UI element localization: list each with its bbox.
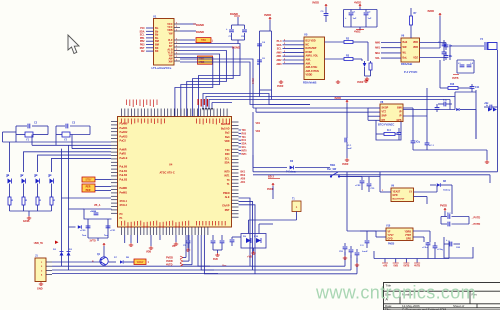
svg-text:VDD: VDD	[413, 41, 418, 44]
svg-text:Pwr_SW: Pwr_SW	[327, 169, 337, 171]
svg-text:V5: V5	[304, 33, 308, 37]
svg-text:SDA: SDA	[375, 52, 380, 55]
svg-text:→PVTD: →PVTD	[471, 217, 480, 220]
svg-text:NC: NC	[306, 43, 310, 46]
svg-text:YVVY: YVVY	[388, 235, 395, 237]
svg-text:VTNT: VTNT	[405, 235, 412, 237]
svg-text:YW: YW	[168, 32, 173, 35]
svg-text:+C-1: +C-1	[429, 145, 435, 147]
svg-text:0VB: 0VB	[393, 266, 398, 268]
svg-text:PuALE: PuALE	[120, 157, 128, 160]
svg-text:EA/VP: EA/VP	[222, 205, 230, 208]
svg-text:PwMI0: PwMI0	[120, 187, 128, 190]
svg-text:BuL: BuL	[403, 57, 408, 60]
svg-text:Sheet of: Sheet of	[453, 304, 464, 308]
svg-text:0402: 0402	[251, 78, 255, 84]
svg-text:4VDD: 4VDD	[166, 260, 173, 263]
svg-text:P1.0: P1.0	[277, 40, 283, 43]
svg-text:AWLAYTEN: AWLAYTEN	[306, 70, 319, 73]
svg-text:Tant: Tant	[104, 234, 109, 237]
svg-text:+C30: +C30	[80, 230, 86, 232]
svg-text:XTAL2: XTAL2	[120, 204, 128, 207]
svg-text:ATSC ATX-C: ATSC ATX-C	[160, 171, 175, 175]
svg-text:INT0: INT0	[224, 170, 230, 173]
svg-text:R-C: R-C	[447, 213, 451, 215]
svg-text:USB_5V: USB_5V	[34, 242, 44, 245]
svg-text:PER: PER	[86, 187, 91, 189]
svg-text:BK2: BK2	[241, 175, 246, 177]
svg-text:DVDZ: DVDZ	[306, 51, 313, 54]
svg-text:VD2: VD2	[256, 131, 261, 133]
svg-text:www.cntronics.com: www.cntronics.com	[315, 283, 476, 303]
svg-text:1uF: 1uF	[368, 18, 373, 20]
svg-text:RX0: RX0	[225, 153, 230, 156]
svg-text:4VDD: 4VDD	[354, 1, 361, 5]
svg-text:4VTB: 4VTB	[452, 77, 459, 80]
svg-text:TX1: TX1	[242, 137, 247, 139]
svg-text:4VTD: 4VTD	[166, 264, 173, 267]
svg-text:4VTB: 4VTB	[414, 265, 420, 268]
svg-text:SCL: SCL	[277, 48, 282, 51]
svg-text:AW3: AW3	[276, 63, 282, 66]
svg-text:DATA/WP: DATA/WP	[306, 47, 317, 50]
svg-text:SW1: SW1	[330, 164, 336, 167]
svg-text:PM25: PM25	[388, 243, 395, 246]
svg-text:4VDZ: 4VDZ	[342, 163, 349, 166]
svg-text:PuLB0: PuLB0	[120, 166, 128, 169]
svg-text:AW0: AW0	[375, 42, 381, 45]
svg-text:PwMI1: PwMI1	[120, 191, 128, 194]
svg-text:XTAL1: XTAL1	[120, 200, 128, 203]
svg-text:AW1: AW1	[375, 47, 381, 50]
svg-text:PuWR: PuWR	[120, 148, 127, 151]
svg-text:PVDD: PVDD	[440, 205, 447, 208]
svg-text:TX0: TX0	[225, 149, 230, 152]
svg-text:DGND: DGND	[196, 30, 204, 34]
svg-text:R16: R16	[450, 84, 455, 86]
svg-text:SDA: SDA	[242, 143, 247, 146]
svg-text:STBY: STBY	[85, 179, 92, 182]
svg-text:VDZ: VDZ	[413, 57, 418, 60]
svg-text:0A0B: 0A0B	[23, 220, 30, 223]
svg-text:INT1: INT1	[224, 175, 230, 178]
svg-text:U4: U4	[169, 163, 173, 167]
svg-text:0VTB: 0VTB	[403, 266, 409, 268]
svg-text:+VB: +VB	[383, 266, 388, 268]
svg-text:DGND: DGND	[196, 23, 204, 27]
svg-text:GPD: GPD	[388, 239, 393, 241]
svg-text:+MBB: +MBB	[90, 211, 97, 213]
svg-text:IP: IP	[399, 111, 402, 114]
svg-text:VDB: VDB	[413, 46, 418, 49]
svg-text:AWL: AWL	[306, 59, 312, 62]
svg-text:SDA: SDA	[276, 44, 281, 47]
svg-text:LmnF: LmnF	[362, 251, 368, 253]
svg-text:AWL: AWL	[306, 62, 312, 65]
svg-text:AW2: AW2	[276, 59, 282, 62]
svg-text:BLUHYVST: BLUHYVST	[393, 199, 405, 201]
svg-text:PuLB2: PuLB2	[120, 174, 128, 177]
svg-text:〉: 〉	[212, 39, 215, 43]
svg-text:WL: WL	[403, 51, 407, 54]
svg-text:BK1: BK1	[241, 172, 246, 174]
svg-text:+CGq: +CGq	[437, 249, 444, 251]
svg-text:RDA/VoltB: RDA/VoltB	[303, 81, 316, 85]
svg-text:V6: V6	[401, 34, 405, 38]
svg-text:0VDD: 0VDD	[312, 1, 319, 5]
svg-text:+C52: +C52	[355, 185, 361, 187]
svg-text:LV: LV	[409, 192, 412, 194]
svg-text:0VDD: 0VDD	[264, 13, 271, 17]
svg-text:AW1: AW1	[276, 55, 282, 58]
svg-text:RST: RST	[225, 209, 230, 212]
svg-text:BMI: BMI	[397, 107, 402, 110]
svg-text:1uF: 1uF	[353, 18, 358, 20]
svg-text:Bu2: Bu2	[225, 132, 230, 135]
svg-text:GPD: GPD	[393, 195, 398, 197]
svg-text:V1: V1	[153, 15, 157, 19]
svg-text:4VDD: 4VDD	[427, 9, 434, 13]
svg-text:AD1: AD1	[241, 181, 246, 184]
svg-text:PnB: PnB	[213, 258, 218, 261]
svg-text:1uuF: 1uuF	[347, 148, 353, 150]
svg-text:RX0: RX0	[242, 133, 247, 135]
svg-text:PuLB1: PuLB1	[120, 170, 128, 173]
svg-text:SDA: SDA	[224, 162, 229, 165]
svg-text:Galaxy: Galaxy	[443, 190, 451, 192]
svg-text:VDB: VDB	[146, 251, 151, 254]
svg-text:PuAD2: PuAD2	[120, 131, 129, 134]
svg-text:IP: IP	[399, 115, 402, 118]
svg-text:VB_A: VB_A	[94, 204, 101, 207]
svg-text:WWW: WWW	[137, 262, 144, 264]
svg-text:P-4 VYVZC: P-4 VYVZC	[404, 70, 418, 74]
svg-text:PuRD: PuRD	[120, 153, 127, 156]
svg-text:+VB: +VB	[247, 256, 252, 259]
svg-text:PuLB3: PuLB3	[120, 178, 128, 181]
svg-text:4VDZ: 4VDZ	[354, 30, 361, 34]
svg-text:PER: PER	[86, 190, 91, 192]
svg-text:B12 VDD: B12 VDD	[306, 40, 316, 43]
svg-text:AD0: AD0	[241, 178, 246, 181]
svg-text:SCL: SCL	[375, 57, 380, 60]
svg-text:AW0: AW0	[276, 51, 282, 54]
svg-text:MT: MT	[382, 119, 386, 122]
svg-text:SCL: SCL	[242, 147, 247, 149]
svg-text:SNP: SNP	[382, 115, 387, 118]
svg-text:BX: BX	[155, 50, 159, 53]
svg-text:INT0: INT0	[242, 150, 248, 152]
svg-text:Bu1/AD: Bu1/AD	[221, 127, 230, 130]
svg-text:+C-1: +C-1	[347, 145, 353, 147]
svg-text:YEAST: YEAST	[393, 191, 401, 194]
svg-text:VTZ: VTZ	[382, 111, 387, 114]
svg-text:GND: GND	[37, 288, 43, 291]
svg-text:GPS: GPS	[396, 119, 401, 122]
svg-text:PSEN: PSEN	[223, 192, 230, 195]
svg-text:PVDD: PVDD	[166, 257, 173, 260]
svg-text:TX0: TX0	[242, 130, 247, 132]
svg-text:3VTO: 3VTO	[90, 240, 96, 243]
svg-text:PuCS: PuCS	[120, 140, 127, 143]
svg-text:BTC/YVONZC: BTC/YVONZC	[378, 124, 394, 127]
svg-text:WR: WR	[403, 46, 407, 49]
svg-text:0VDZ: 0VDZ	[277, 85, 284, 88]
svg-text:Bu0/AD: Bu0/AD	[221, 123, 230, 126]
svg-text:VDD: VDD	[224, 140, 229, 143]
svg-text:LT1-ultraVCCs: LT1-ultraVCCs	[152, 66, 172, 70]
svg-text:→PVTD: →PVTD	[471, 223, 480, 226]
svg-text:GPD: GPD	[406, 239, 411, 241]
svg-text:ALE: ALE	[225, 196, 230, 199]
svg-text:XW: XW	[168, 61, 173, 64]
svg-text:SCL: SCL	[225, 157, 230, 160]
svg-text:DGND: DGND	[232, 46, 240, 50]
svg-text:RDA/XaE: RDA/XaE	[401, 62, 413, 66]
svg-text:PuAD1: PuAD1	[120, 127, 129, 130]
svg-text:SKOP: SKOP	[382, 107, 389, 110]
svg-text:AWUL VOL: AWUL VOL	[306, 55, 319, 58]
svg-text:INT1: INT1	[242, 154, 248, 156]
svg-text:VD1: VD1	[256, 123, 261, 125]
svg-text:YDRB: YDRB	[404, 232, 411, 234]
svg-text:DGND: DGND	[230, 12, 238, 16]
svg-text:ICq: ICq	[416, 140, 420, 143]
svg-text:C11: C11	[475, 86, 480, 89]
svg-text:PuAD3: PuAD3	[120, 135, 129, 138]
svg-text:AWLATCH: AWLATCH	[306, 66, 318, 69]
svg-text:RX1: RX1	[242, 140, 247, 142]
svg-text:TBD: TBD	[201, 38, 206, 42]
svg-text:+C5n: +C5n	[422, 247, 428, 249]
svg-text:Bu3: Bu3	[225, 136, 230, 139]
svg-text:BuS: BuS	[403, 41, 408, 44]
svg-text:4VDZ: 4VDZ	[357, 81, 364, 84]
svg-text:V10: V10	[386, 225, 391, 228]
svg-text:+C31: +C31	[110, 230, 116, 232]
svg-text:YBB: YBB	[199, 61, 204, 64]
svg-text:V8: V8	[380, 100, 384, 104]
svg-text:PuAD0: PuAD0	[120, 123, 129, 126]
svg-text:VDDD: VDDD	[306, 74, 313, 77]
svg-text:Tant: Tant	[82, 234, 87, 237]
